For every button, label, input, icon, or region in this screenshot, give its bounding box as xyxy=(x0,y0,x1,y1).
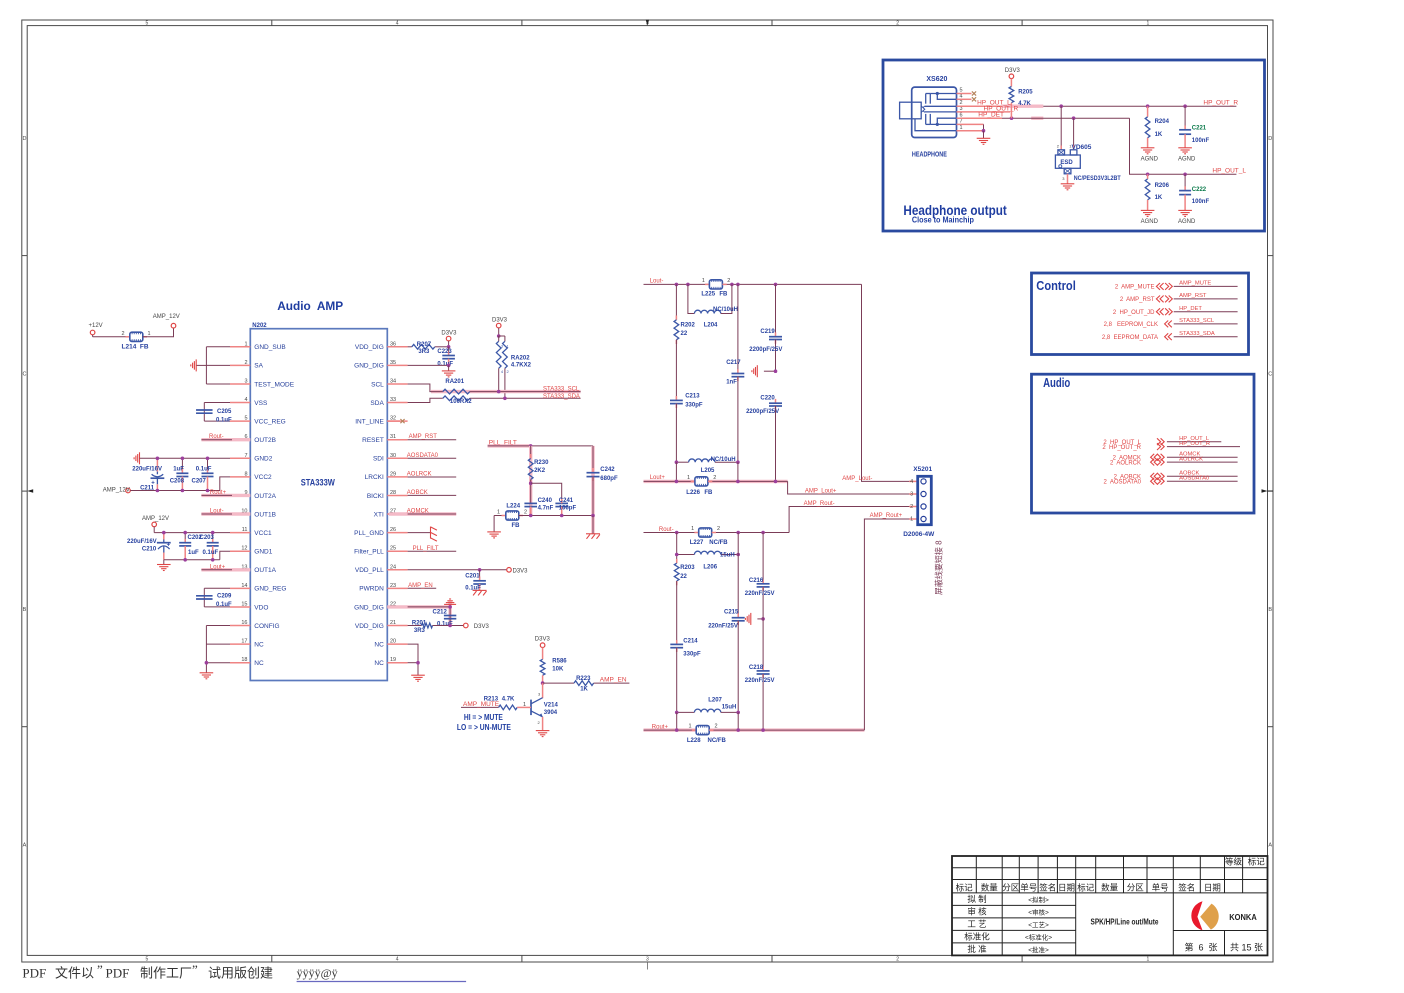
svg-text:Control: Control xyxy=(1036,279,1076,293)
op-amp U-N202 STA333W chip body xyxy=(250,329,387,681)
wire AMP_12V rail to VCC2 xyxy=(130,477,230,491)
svg-text:6: 6 xyxy=(960,112,963,118)
svg-text:C203: C203 xyxy=(200,535,215,541)
svg-text:STA333_SDA: STA333_SDA xyxy=(543,394,580,400)
svg-text:0.1uF: 0.1uF xyxy=(196,466,212,472)
svg-text:2 HP_OUT_JD: 2 HP_OUT_JD xyxy=(1113,310,1155,316)
svg-text:2: 2 xyxy=(896,956,899,962)
svg-text:10K: 10K xyxy=(552,667,564,673)
capacitor C219 xyxy=(749,284,782,371)
svg-text:数量: 数量 xyxy=(1101,882,1119,892)
svg-text:3R3: 3R3 xyxy=(418,349,430,355)
ferrite bead L227 xyxy=(690,526,729,546)
svg-text:LRCKI: LRCKI xyxy=(365,474,384,481)
svg-text:L225: L225 xyxy=(701,292,715,298)
svg-text:33: 33 xyxy=(390,397,396,403)
svg-text:AMP_Rout-: AMP_Rout- xyxy=(804,501,835,507)
power D3V3 at RA202 xyxy=(492,318,508,338)
wire AOMCK pin27 xyxy=(389,509,456,515)
resistor R223 xyxy=(543,676,630,693)
svg-text:0.1uF: 0.1uF xyxy=(216,602,232,608)
svg-text:1uF: 1uF xyxy=(188,550,199,556)
wire HP_DET to HP_OUT_L line xyxy=(957,116,1237,176)
svg-text:2,8 EEPROM_DATA: 2,8 EEPROM_DATA xyxy=(1102,335,1158,341)
connector X5201 D2006-4W xyxy=(903,466,935,538)
svg-text:GND_REG: GND_REG xyxy=(254,586,286,593)
svg-text:VDD_DIG: VDD_DIG xyxy=(355,344,384,351)
svg-text:C215: C215 xyxy=(724,610,739,616)
svg-text:1: 1 xyxy=(148,331,151,337)
wire jack pins 7-1 ground tie xyxy=(957,124,986,138)
svg-text:GND_DIG: GND_DIG xyxy=(354,363,384,370)
svg-text:2: 2 xyxy=(960,100,963,106)
svg-text:22: 22 xyxy=(680,574,687,580)
svg-text:分区: 分区 xyxy=(1127,882,1145,892)
svg-text:AOSDATA0: AOSDATA0 xyxy=(1179,476,1209,482)
ground below jack xyxy=(977,137,991,139)
no-connect jack pin4 xyxy=(957,97,977,101)
svg-text:8: 8 xyxy=(244,471,247,477)
power +12V xyxy=(89,323,103,337)
svg-text:28: 28 xyxy=(390,490,396,496)
svg-text:4.7nF: 4.7nF xyxy=(538,505,554,511)
wire AMP_Rout- to connector xyxy=(789,507,918,533)
svg-text:RESET: RESET xyxy=(362,437,384,444)
svg-text:L207: L207 xyxy=(708,698,722,704)
svg-text:5: 5 xyxy=(244,416,247,422)
capacitor C218 xyxy=(745,619,775,730)
svg-text:2: 2 xyxy=(244,360,247,366)
svg-text:GND_SUB: GND_SUB xyxy=(254,344,285,351)
ground arrow mid filter L xyxy=(752,365,777,377)
svg-text:680pF: 680pF xyxy=(600,476,618,482)
svg-text:<批准>: <批准> xyxy=(1028,945,1049,954)
svg-text:0.1uF: 0.1uF xyxy=(203,550,219,556)
svg-text:TEST_MODE: TEST_MODE xyxy=(254,381,294,388)
svg-text:分区: 分区 xyxy=(1002,882,1020,892)
svg-text:3904: 3904 xyxy=(544,710,558,716)
ground below R204 xyxy=(1141,148,1159,163)
svg-text:1K: 1K xyxy=(580,687,588,693)
svg-text:L227: L227 xyxy=(690,540,704,546)
bottom watermark text xyxy=(22,962,466,982)
svg-text:Audio: Audio xyxy=(1043,376,1070,390)
svg-text:7: 7 xyxy=(244,453,247,459)
resistor array RA201 top xyxy=(443,389,470,394)
svg-text:B: B xyxy=(1268,607,1272,613)
junction dots VCC1 rail xyxy=(162,531,215,535)
svg-text:1: 1 xyxy=(687,475,690,481)
svg-text:220nF/25V: 220nF/25V xyxy=(745,678,775,684)
audio row HP_OUT_L xyxy=(1103,436,1221,446)
svg-text:100nF: 100nF xyxy=(1192,199,1210,205)
wire GND_DIG pin35 xyxy=(408,364,451,371)
svg-text:AMP_EN: AMP_EN xyxy=(600,677,627,684)
svg-text:16: 16 xyxy=(241,620,247,626)
node collector junction xyxy=(541,681,545,685)
svg-text:20: 20 xyxy=(390,639,396,645)
chip pins left 1-18 xyxy=(230,341,295,667)
resistor array RA202 xyxy=(496,336,531,398)
svg-text:OUT1B: OUT1B xyxy=(254,511,276,518)
svg-text:SDI: SDI xyxy=(373,456,384,463)
ground below NC pins xyxy=(411,674,425,676)
svg-text:C218: C218 xyxy=(749,665,764,671)
ground below C210 xyxy=(157,560,171,571)
wire AMP_RST pin31 xyxy=(408,434,457,440)
svg-text:标记: 标记 xyxy=(956,882,974,892)
chip pins right 36-19 xyxy=(354,341,407,667)
svg-text:14: 14 xyxy=(241,583,247,589)
svg-text:LO = > UN-MUTE: LO = > UN-MUTE xyxy=(457,722,511,732)
svg-text:L214 FB: L214 FB xyxy=(122,344,149,351)
svg-text:100RX2: 100RX2 xyxy=(450,399,472,405)
svg-text:D: D xyxy=(1268,136,1272,142)
ground below C223 xyxy=(442,370,456,372)
svg-text:AOBCK: AOBCK xyxy=(407,490,428,496)
svg-text:100pF: 100pF xyxy=(559,505,577,511)
svg-text:PDF: PDF xyxy=(106,966,130,981)
capacitor C201 xyxy=(465,570,486,592)
svg-text:C217: C217 xyxy=(726,360,741,366)
node pins 14-15 tie xyxy=(204,588,230,607)
svg-text:NC: NC xyxy=(254,660,264,667)
svg-text:AGND: AGND xyxy=(1178,157,1196,163)
svg-text:STA333W: STA333W xyxy=(301,478,336,488)
svg-text:L206: L206 xyxy=(703,564,717,570)
svg-text:KONKA: KONKA xyxy=(1229,913,1257,922)
svg-text:FB: FB xyxy=(704,490,713,496)
svg-text:C212: C212 xyxy=(433,610,448,616)
ground below VD605 xyxy=(1061,183,1075,185)
svg-text:R202: R202 xyxy=(681,323,696,329)
svg-text:R586: R586 xyxy=(552,659,567,665)
ground below C221 xyxy=(1178,148,1196,163)
svg-text:C208: C208 xyxy=(170,478,185,484)
wire AMP_EN pin23 xyxy=(408,583,437,589)
svg-text:2200pF/25V: 2200pF/25V xyxy=(746,409,779,415)
svg-text:VDD_DIG: VDD_DIG xyxy=(355,623,384,630)
svg-text:C205: C205 xyxy=(217,409,232,415)
svg-text:2 AMP_RST: 2 AMP_RST xyxy=(1120,297,1155,303)
svg-text:签名: 签名 xyxy=(1178,882,1195,892)
svg-text:N202: N202 xyxy=(252,323,267,329)
capacitor C212 xyxy=(433,610,457,628)
wire VDD_PLL pin24 xyxy=(408,568,507,572)
svg-text:2: 2 xyxy=(715,724,718,730)
svg-text:PLL_GND: PLL_GND xyxy=(354,530,384,537)
svg-text:试用版创建: 试用版创建 xyxy=(208,966,273,981)
ferrite bead L226 xyxy=(686,475,716,496)
capacitor C217 xyxy=(726,284,744,462)
svg-text:C219: C219 xyxy=(760,329,775,335)
svg-text:CONFIG: CONFIG xyxy=(254,623,279,630)
svg-text:VDO: VDO xyxy=(254,604,268,611)
wire AOLRCK pin29 xyxy=(407,472,456,478)
power D3V3 at pin21 xyxy=(464,623,490,630)
wire GND2 rail xyxy=(140,457,231,459)
svg-text:Rout-: Rout- xyxy=(659,527,674,533)
svg-text:3: 3 xyxy=(910,492,913,498)
svg-text:VCC1: VCC1 xyxy=(254,530,272,537)
svg-text:3: 3 xyxy=(646,956,649,962)
svg-text:4: 4 xyxy=(244,397,247,403)
svg-text:R201: R201 xyxy=(412,620,427,626)
svg-text:PWRDN: PWRDN xyxy=(359,586,384,593)
control row HP_DET xyxy=(1113,306,1238,316)
svg-text:220uF/16V: 220uF/16V xyxy=(132,467,162,473)
svg-text:C216: C216 xyxy=(749,578,764,584)
svg-text:1uF: 1uF xyxy=(173,466,184,472)
svg-text:XTI: XTI xyxy=(374,511,384,518)
svg-text:1K: 1K xyxy=(1155,195,1163,201)
svg-text:B: B xyxy=(23,607,27,613)
control row AMP_MUTE xyxy=(1115,281,1238,291)
svg-text:VDD_PLL: VDD_PLL xyxy=(355,567,384,574)
ground arrow GND_DIG pin22 xyxy=(444,603,456,605)
svg-text:11: 11 xyxy=(242,527,248,533)
svg-text:VCC_REG: VCC_REG xyxy=(254,418,285,425)
svg-text:100nF: 100nF xyxy=(1192,138,1210,144)
svg-text:AMP_12V: AMP_12V xyxy=(142,516,169,522)
no-connect INT_LINE xyxy=(387,419,404,423)
ground arrow SA xyxy=(191,359,196,371)
svg-text:330pF: 330pF xyxy=(683,651,701,657)
wire Rout+ pin9 xyxy=(201,494,250,497)
svg-text:24: 24 xyxy=(390,564,396,570)
svg-text:2: 2 xyxy=(727,278,730,284)
svg-text:制作工厂: 制作工厂 xyxy=(140,966,192,981)
resistor R203 xyxy=(674,533,695,645)
svg-text:D3V3: D3V3 xyxy=(513,568,529,574)
svg-text:R207: R207 xyxy=(417,342,432,348)
wire Lout- rail xyxy=(644,283,862,287)
svg-text:1nF: 1nF xyxy=(726,380,737,386)
ground below L224 xyxy=(487,531,501,533)
svg-text:1: 1 xyxy=(688,724,691,730)
svg-text:R223: R223 xyxy=(576,676,591,682)
wire SDA to STA333_SDA xyxy=(470,397,581,401)
svg-text:L204: L204 xyxy=(704,323,718,329)
svg-text:C213: C213 xyxy=(685,394,700,400)
svg-text:AGND: AGND xyxy=(1141,157,1159,163)
svg-text:HEADPHONE: HEADPHONE xyxy=(912,149,947,158)
ground below R206 xyxy=(1141,210,1159,225)
capacitor C205 xyxy=(196,409,232,423)
svg-text:INT_LINE: INT_LINE xyxy=(355,418,384,425)
wire VCC1 rail xyxy=(154,532,230,534)
svg-text:C241: C241 xyxy=(559,498,574,504)
wire jack pin3 stub xyxy=(957,111,1011,113)
svg-text:C201: C201 xyxy=(465,573,480,579)
svg-text:<审核>: <审核> xyxy=(1028,908,1049,917)
svg-text:2: 2 xyxy=(717,526,720,532)
svg-text:AGND: AGND xyxy=(1141,219,1159,225)
svg-text:D: D xyxy=(23,136,27,142)
resistor R230 xyxy=(528,446,549,516)
svg-text:2: 2 xyxy=(524,510,527,516)
svg-text:STA333_SCL: STA333_SCL xyxy=(1179,318,1215,324)
svg-text:L205: L205 xyxy=(701,468,715,474)
svg-text:R206: R206 xyxy=(1155,183,1170,189)
svg-text:C: C xyxy=(23,371,27,377)
svg-text:Rout+: Rout+ xyxy=(210,490,227,496)
resistor R207 xyxy=(408,342,449,355)
svg-text:NC/FB: NC/FB xyxy=(709,540,728,546)
svg-text:OUT2B: OUT2B xyxy=(254,437,276,444)
svg-text:HP_DET: HP_DET xyxy=(978,112,1004,119)
wire Rout+ rail xyxy=(644,728,865,732)
resistor R201 xyxy=(408,620,464,634)
svg-text:共 15 张: 共 15 张 xyxy=(1230,943,1263,953)
svg-text:Lout-: Lout- xyxy=(210,509,224,515)
svg-text:R204: R204 xyxy=(1155,119,1170,125)
svg-text:C209: C209 xyxy=(217,594,232,600)
svg-text:D3V3: D3V3 xyxy=(474,624,490,630)
svg-text:日期: 日期 xyxy=(1058,882,1075,892)
svg-text:5: 5 xyxy=(146,20,149,26)
svg-text:AMP_12V: AMP_12V xyxy=(153,314,180,320)
transistor V214 3904 xyxy=(531,683,558,731)
node pins 16-18 tie xyxy=(205,626,230,673)
svg-text:XS620: XS620 xyxy=(926,76,947,83)
svg-text:12: 12 xyxy=(241,546,247,552)
svg-text:31: 31 xyxy=(390,434,396,440)
ferrite bead L228 xyxy=(687,724,727,745)
svg-text:2 AMP_MUTE: 2 AMP_MUTE xyxy=(1115,285,1155,291)
wire AMP_Rout+ to connector xyxy=(864,519,917,730)
power D3V3 at pin24 xyxy=(507,568,528,575)
svg-text:D3V3: D3V3 xyxy=(535,636,551,642)
svg-text:ESD: ESD xyxy=(1060,160,1073,166)
svg-text:A: A xyxy=(23,842,27,848)
svg-text:29: 29 xyxy=(390,471,396,477)
capacitor C203 xyxy=(200,533,219,560)
svg-text:A: A xyxy=(1268,842,1272,848)
power D3V3 at C223 xyxy=(441,330,457,348)
svg-text:STA333_SDA: STA333_SDA xyxy=(1179,331,1215,337)
capacitor C209 xyxy=(196,594,232,609)
svg-text:Lout-: Lout- xyxy=(650,278,664,284)
svg-text:AOLRCK: AOLRCK xyxy=(1179,456,1203,462)
wire +12V to L214 xyxy=(93,336,130,338)
ground below C222 xyxy=(1178,210,1196,225)
svg-text:26: 26 xyxy=(390,527,396,533)
svg-text:NC: NC xyxy=(374,641,384,648)
svg-text:Audio AMP: Audio AMP xyxy=(277,299,343,313)
wire PLL bottom rail xyxy=(519,514,593,518)
capacitor C222 xyxy=(1179,174,1209,210)
control box frame xyxy=(1032,273,1249,355)
audio row AOBCK xyxy=(1114,471,1238,481)
svg-text:ÿÿÿÿ@ÿ: ÿÿÿÿ@ÿ xyxy=(297,966,338,980)
svg-text:C220: C220 xyxy=(760,395,775,401)
ground CONFIG-NC xyxy=(200,672,214,674)
svg-text:2,8 EEPROM_CLK: 2,8 EEPROM_CLK xyxy=(1104,322,1158,328)
resistor R206 xyxy=(1145,174,1169,210)
svg-text:NC/10uH: NC/10uH xyxy=(711,457,736,463)
svg-text:拟 制: 拟 制 xyxy=(967,894,986,904)
chassis ground below C242 xyxy=(586,533,600,535)
wire Lout+ rail xyxy=(644,480,788,484)
svg-text:2 AOLRCK: 2 AOLRCK xyxy=(1110,460,1141,466)
svg-text:0.1uF: 0.1uF xyxy=(437,361,453,367)
svg-text:1K: 1K xyxy=(1155,132,1163,138)
svg-text:3: 3 xyxy=(244,378,247,384)
ferrite bead L224 xyxy=(494,504,527,529)
capacitor C202 xyxy=(179,533,202,560)
svg-text:”: ” xyxy=(192,962,198,977)
svg-text:AMP_Rout+: AMP_Rout+ xyxy=(870,513,903,519)
svg-text:Lout+: Lout+ xyxy=(210,564,226,570)
svg-text:34: 34 xyxy=(390,378,396,384)
audio box frame xyxy=(1032,374,1255,513)
svg-text:2: 2 xyxy=(713,475,716,481)
svg-text:1: 1 xyxy=(1146,20,1149,26)
control row STA333_SCL xyxy=(1104,318,1238,328)
svg-text:18: 18 xyxy=(241,657,247,663)
resistor R586 xyxy=(540,659,567,684)
svg-text:2: 2 xyxy=(896,20,899,26)
svg-text:NC: NC xyxy=(374,660,384,667)
svg-text:15uH: 15uH xyxy=(722,705,737,711)
svg-text:第 6 张: 第 6 张 xyxy=(1184,942,1217,953)
title block header texts xyxy=(956,857,1266,955)
capacitor C208 xyxy=(170,458,189,490)
audio row AOMCK xyxy=(1113,452,1238,462)
svg-text:4: 4 xyxy=(396,20,399,26)
svg-text:2200pF/25V: 2200pF/25V xyxy=(749,347,782,353)
svg-text:AGND: AGND xyxy=(1178,219,1196,225)
svg-text:AMP_Lout+: AMP_Lout+ xyxy=(805,489,837,495)
resistor R213 xyxy=(461,696,531,709)
capacitor C210 electrolytic xyxy=(127,533,171,560)
svg-text:L226: L226 xyxy=(686,490,700,496)
ground arrow GND2 rail xyxy=(134,452,139,464)
svg-text:2 AOSDATA0: 2 AOSDATA0 xyxy=(1104,479,1142,485)
svg-text:审 核: 审 核 xyxy=(967,907,987,917)
svg-text:GND2: GND2 xyxy=(254,456,272,463)
svg-text:220uF/16V: 220uF/16V xyxy=(127,539,157,545)
capacitor C240 xyxy=(524,498,553,516)
svg-text:单号: 单号 xyxy=(1020,882,1037,892)
svg-text:SA: SA xyxy=(254,363,263,370)
svg-text:R230: R230 xyxy=(534,460,549,466)
svg-text:PDF: PDF xyxy=(22,966,46,981)
resistor array RA201 bottom xyxy=(443,379,472,405)
text HI MUTE note xyxy=(457,712,511,732)
svg-text:4: 4 xyxy=(910,479,913,485)
svg-text:签名: 签名 xyxy=(1039,882,1056,892)
junction dots AMP_12V rail xyxy=(156,489,210,493)
svg-text:1: 1 xyxy=(702,278,705,284)
svg-text:Rout-: Rout- xyxy=(209,434,224,440)
svg-text:4.7K: 4.7K xyxy=(1018,101,1031,107)
svg-text:AMP_RST: AMP_RST xyxy=(1179,293,1207,299)
svg-text:C207: C207 xyxy=(192,478,207,484)
svg-text:5: 5 xyxy=(146,956,149,962)
power D3V3 at R586 xyxy=(535,636,551,659)
power AMP_12V left rail xyxy=(103,487,131,493)
wire PLL_FILT rail xyxy=(488,444,593,448)
svg-text:R205: R205 xyxy=(1018,90,1033,96)
svg-text:15: 15 xyxy=(241,601,247,607)
power AMP_12V mid-left xyxy=(142,516,169,533)
svg-text:Filter_PLL: Filter_PLL xyxy=(354,549,384,556)
no-connect jack pin5 xyxy=(957,91,977,95)
svg-text:23: 23 xyxy=(390,583,396,589)
svg-text:17: 17 xyxy=(241,639,247,645)
